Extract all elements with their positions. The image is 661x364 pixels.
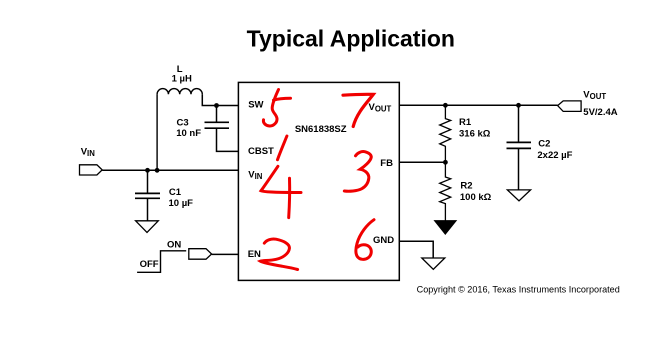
svg-text:VIN: VIN — [248, 169, 263, 181]
VOUT output flag — [558, 90, 618, 119]
VIN input flag — [80, 146, 103, 175]
copyright note — [417, 284, 620, 294]
pin FB label — [380, 158, 393, 169]
svg-text:FB: FB — [380, 158, 393, 169]
wire C1 top lead — [147, 170, 149, 193]
svg-text:ON: ON — [167, 239, 181, 250]
wire inductor left riser — [156, 94, 158, 170]
svg-text:10 µF: 10 µF — [169, 198, 194, 209]
red annotation digit 6 (pin GND) — [356, 220, 374, 260]
pin VIN label — [248, 169, 263, 181]
wire FB — [399, 161, 445, 163]
title — [247, 25, 455, 51]
svg-text:EN: EN — [248, 249, 261, 260]
resistor R1 — [440, 105, 491, 162]
svg-text:2x22 µF: 2x22 µF — [537, 150, 572, 161]
svg-text:Copyright © 2016, Texas Instru: Copyright © 2016, Texas Instruments Inco… — [417, 284, 620, 294]
red annotation digit 3 (pin FB) — [344, 152, 371, 192]
node C1 junction — [145, 168, 150, 173]
svg-text:10 nF: 10 nF — [176, 128, 201, 139]
svg-text:SN61838SZ: SN61838SZ — [295, 124, 347, 135]
red annotation digit 7 (pin VOUT) — [343, 94, 373, 126]
svg-text:C3: C3 — [177, 118, 189, 129]
inductor L — [157, 64, 202, 94]
ground R2 (filled arrow) — [435, 221, 457, 235]
ON/OFF step source — [137, 239, 186, 272]
op-amp U1 SN61838SZ IC box — [238, 82, 399, 280]
pin GND label — [373, 235, 394, 246]
svg-text:OFF: OFF — [140, 259, 159, 270]
node SW/C3 junction — [214, 103, 219, 108]
svg-text:C1: C1 — [169, 187, 182, 198]
wire C3 bottom to CBST — [217, 129, 239, 152]
resistor R2 — [440, 162, 492, 220]
red annotation digit 4 (pin VIN) — [261, 166, 301, 217]
node FB junction — [443, 160, 448, 165]
EN input flag — [189, 249, 212, 260]
node R1 top junction — [443, 103, 448, 108]
wire C3 top lead — [216, 106, 218, 122]
svg-text:SW: SW — [248, 100, 263, 111]
red annotation digit 2 (pin EN) — [260, 239, 297, 270]
wire GND pin — [399, 241, 433, 258]
red annotation digit 1 (pin CBST) — [278, 136, 287, 160]
ground C2 — [507, 190, 530, 201]
ground C1 — [136, 221, 159, 233]
svg-text:VIN: VIN — [81, 146, 96, 158]
wire EN — [212, 253, 239, 255]
svg-text:1 µH: 1 µH — [172, 74, 192, 85]
svg-text:100 kΩ: 100 kΩ — [460, 192, 492, 203]
wire VIN rail — [102, 169, 238, 171]
svg-text:R2: R2 — [460, 180, 472, 191]
node C2 top junction — [516, 103, 521, 108]
capacitor C1 — [135, 187, 193, 209]
capacitor C3 — [176, 118, 229, 140]
pin SW label — [248, 100, 263, 111]
svg-text:CBST: CBST — [248, 146, 274, 157]
red annotation digit 5 (pin SW) — [263, 90, 290, 127]
svg-text:Typical Application: Typical Application — [247, 25, 455, 51]
node L junction — [155, 168, 160, 173]
pin CBST label — [248, 146, 274, 157]
wire inductor right to SW — [202, 94, 238, 105]
svg-text:316 kΩ: 316 kΩ — [459, 129, 491, 140]
wire C1 bottom lead — [147, 199, 149, 221]
svg-text:C2: C2 — [538, 139, 550, 150]
svg-text:GND: GND — [373, 235, 394, 246]
svg-text:5V/2.4A: 5V/2.4A — [583, 107, 617, 118]
svg-text:R1: R1 — [459, 117, 472, 128]
capacitor C2 — [507, 105, 573, 190]
pin EN label — [248, 249, 261, 260]
svg-text:VOUT: VOUT — [583, 90, 606, 102]
wire VOUT rail — [399, 104, 557, 106]
svg-text:VOUT: VOUT — [369, 102, 392, 114]
pin VOUT label — [369, 102, 392, 114]
ground GND pin — [422, 258, 445, 269]
